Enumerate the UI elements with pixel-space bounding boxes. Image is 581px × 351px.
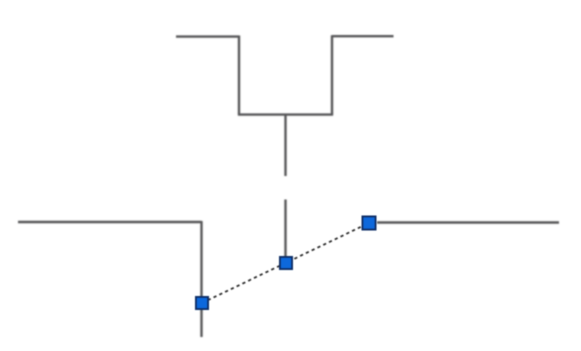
- grip middle: [280, 257, 292, 269]
- grip lower-left: [196, 297, 208, 309]
- wire bottom-left horizontal: [18, 221, 202, 223]
- grip upper-right: [363, 217, 376, 230]
- wire left vertical of U: [238, 36, 240, 115]
- wire bottom-left vertical: [200, 221, 202, 337]
- wire bottom-right horizontal: [377, 221, 559, 223]
- wire center stem upper segment: [284, 115, 286, 176]
- wire right vertical of U: [331, 35, 333, 114]
- wire top-left horizontal: [176, 35, 239, 37]
- wire center stem lower segment: [284, 200, 286, 263]
- wire U bottom horizontal: [238, 113, 333, 115]
- wire top-right horizontal: [332, 35, 394, 37]
- wire dashed stretch preview: [202, 223, 369, 303]
